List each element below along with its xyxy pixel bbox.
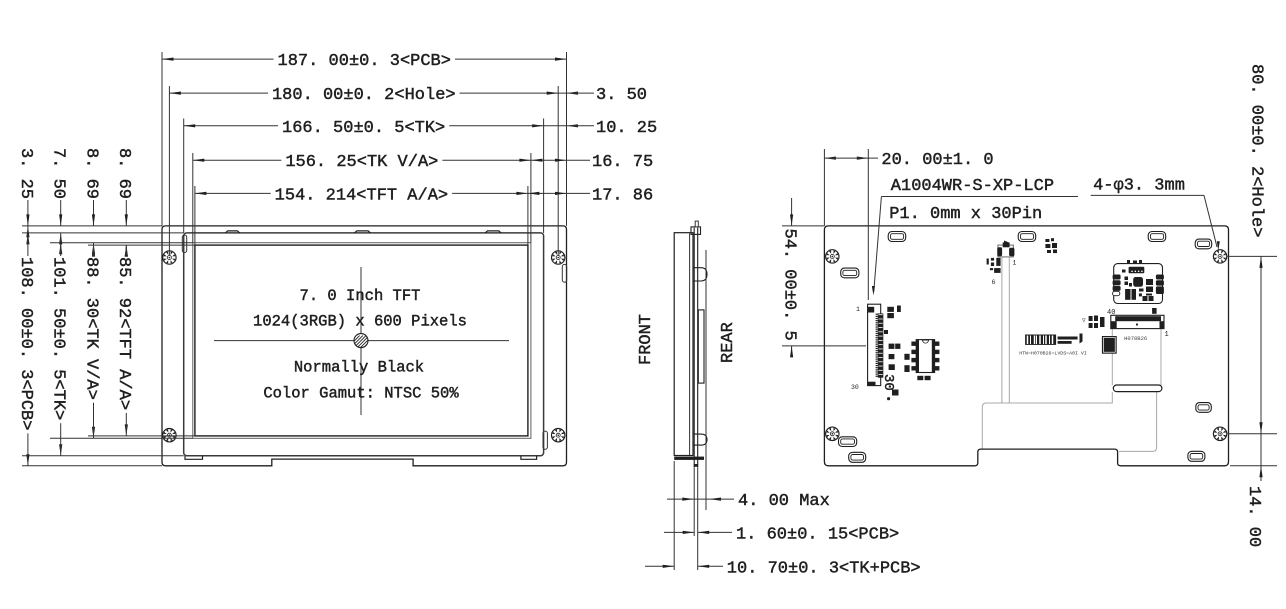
svg-text:1. 60±0. 15<PCB>: 1. 60±0. 15<PCB> xyxy=(736,525,899,544)
hidden backlight flex outline left xyxy=(982,392,1112,448)
svg-text:166. 50±0. 5<TK>: 166. 50±0. 5<TK> xyxy=(282,119,445,138)
svg-text:1: 1 xyxy=(1013,260,1017,267)
svg-text:17. 86: 17. 86 xyxy=(592,186,653,205)
dimension 4.00 Max xyxy=(667,492,830,511)
front view TK glass outline xyxy=(184,233,544,456)
hidden LCD flex vertical pair xyxy=(1002,258,1009,404)
svg-text:156. 25<TK V/A>: 156. 25<TK V/A> xyxy=(285,153,438,172)
side view clip lower xyxy=(693,434,707,445)
rear components left of 40pin xyxy=(1082,316,1105,329)
dimension 156.25 TK V/A width xyxy=(193,153,531,172)
svg-text:6: 6 xyxy=(992,279,996,286)
svg-text:10. 25: 10. 25 xyxy=(596,119,657,138)
dimension 10.25 right offset xyxy=(544,119,658,138)
side view top cap xyxy=(691,227,701,235)
svg-text:1: 1 xyxy=(856,306,860,313)
rear FPC connector bottom pad xyxy=(868,382,876,386)
rear FPC connector top pad xyxy=(868,307,875,313)
front view TK V/A rectangle xyxy=(193,243,531,439)
rear screw hole top-left xyxy=(826,250,839,263)
svg-text:3. 25: 3. 25 xyxy=(16,148,35,199)
svg-text:85. 92<TFT A/A>: 85. 92<TFT A/A> xyxy=(114,257,133,410)
svg-text:A1004WR-S-XP-LCP: A1004WR-S-XP-LCP xyxy=(891,177,1054,196)
side view glass inner line xyxy=(689,234,691,456)
svg-text:20. 00±1. 0: 20. 00±1. 0 xyxy=(881,151,993,170)
front view bottom edge tabs xyxy=(185,456,537,460)
side view TK glass slab xyxy=(674,233,693,456)
svg-text:REAR: REAR xyxy=(719,322,738,363)
dimension 108.00 PCB height xyxy=(16,226,35,466)
rear small part above 40pin right xyxy=(1152,308,1157,314)
side view top stub xyxy=(695,221,698,227)
svg-text:154. 214<TFT A/A>: 154. 214<TFT A/A> xyxy=(275,186,448,205)
rear view PCB outline xyxy=(824,226,1228,466)
svg-text:14. 00: 14. 00 xyxy=(1244,486,1263,547)
rear FPC connector outline xyxy=(868,304,881,385)
svg-text:8. 69: 8. 69 xyxy=(81,148,100,199)
front view top edge tabs xyxy=(225,231,501,233)
dimension 166.50 TK width xyxy=(184,119,544,138)
rear FPC stiffener slot xyxy=(1113,385,1162,392)
svg-text:108. 00±0. 3<PCB>: 108. 00±0. 3<PCB> xyxy=(16,257,35,430)
left extension lines top xyxy=(22,226,195,245)
svg-text:40: 40 xyxy=(1107,309,1115,317)
side view component envelope line xyxy=(705,250,707,510)
svg-text:1024(3RGB) x 600 Pixels: 1024(3RGB) x 600 Pixels xyxy=(253,313,467,331)
svg-text:101. 50±0. 5<TK>: 101. 50±0. 5<TK> xyxy=(49,257,68,420)
svg-text:88. 30<TK V/A>: 88. 30<TK V/A> xyxy=(81,257,100,400)
svg-text:10. 70±0. 3<TK+PCB>: 10. 70±0. 3<TK+PCB> xyxy=(727,559,921,578)
svg-text:H070B26: H070B26 xyxy=(1124,335,1147,342)
dimension 187.00 PCB width xyxy=(162,52,567,71)
svg-text:16. 75: 16. 75 xyxy=(592,153,653,172)
hidden backlight flex outline right xyxy=(1119,392,1157,451)
hidden 40pin flex verticals xyxy=(1112,329,1161,386)
svg-text:187. 00±0. 3<PCB>: 187. 00±0. 3<PCB> xyxy=(278,52,451,71)
svg-text:7. 0 Inch TFT: 7. 0 Inch TFT xyxy=(300,287,421,305)
rear components cluster top-right of LVDS xyxy=(1045,238,1057,253)
svg-text:1: 1 xyxy=(1165,331,1169,339)
dimension 8.69 top-left b xyxy=(114,148,133,257)
svg-text:FRONT: FRONT xyxy=(637,314,656,365)
rear screw hole bottom-right xyxy=(1213,427,1226,440)
svg-text:HTN=H070B26=LVDS=A0I VI: HTN=H070B26=LVDS=A0I VI xyxy=(1019,351,1087,357)
dimension 3.25 top-left xyxy=(16,148,35,244)
svg-text:4. 00 Max: 4. 00 Max xyxy=(738,492,830,511)
dimension 7.50 top-left xyxy=(49,148,68,254)
dimension 180.00 hole spacing xyxy=(169,86,558,105)
dimension 10.70 TK+PCB thickness xyxy=(645,559,921,578)
left extension lines bottom xyxy=(22,436,195,466)
dimension 20.00 connector offset xyxy=(824,149,993,300)
front display center mark xyxy=(214,267,509,415)
svg-text:30: 30 xyxy=(851,384,859,391)
side view bottom extension lines xyxy=(674,461,698,570)
dimension 54.00 vertical xyxy=(779,198,866,357)
rear IC U1 xyxy=(911,340,939,381)
side view PCB edge lines xyxy=(694,228,698,468)
dimension 16.75 right offset xyxy=(531,153,653,172)
side view bottom cap xyxy=(674,457,704,467)
rear top edge slots xyxy=(888,232,1165,242)
extension lines for top dimensions xyxy=(162,52,567,256)
dimension 14.00 vertical xyxy=(1230,434,1277,547)
rear bottom edge slots xyxy=(849,451,1205,462)
dimension 1.60 PCB thickness xyxy=(664,525,899,544)
dimension 154.214 TFT A/A width xyxy=(195,186,528,205)
dimension 3.50 right offset xyxy=(558,86,647,105)
svg-text:Color Gamut: NTSC 50%: Color Gamut: NTSC 50% xyxy=(263,385,459,403)
svg-text:180. 00±0. 2<Hole>: 180. 00±0. 2<Hole> xyxy=(272,86,456,105)
rear screw hole top-right xyxy=(1213,250,1226,263)
side view FPC bar xyxy=(698,310,704,383)
svg-text:4-φ3. 3mm: 4-φ3. 3mm xyxy=(1093,177,1185,196)
svg-text:7. 50: 7. 50 xyxy=(49,148,68,199)
rear backlight driver chip xyxy=(1102,336,1117,354)
side view clip upper xyxy=(693,268,707,281)
svg-text:80. 00±0. 2<Hole>: 80. 00±0. 2<Hole> xyxy=(1246,64,1265,237)
rear right edge slots xyxy=(1195,239,1212,412)
dimension 80.00 hole spacing vertical xyxy=(1228,64,1278,434)
dimension 101.50 TK height xyxy=(49,233,68,456)
svg-text:▽: ▽ xyxy=(1082,317,1086,324)
rear discrete components near FPC xyxy=(884,306,910,396)
dimension 88.30 TK V/A height xyxy=(81,243,100,439)
rear screw hole bottom-left xyxy=(826,427,839,440)
dimension 17.86 right offset xyxy=(528,186,653,205)
front screw hole top-left xyxy=(163,251,176,264)
dimension 85.92 TFT A/A height xyxy=(114,245,133,436)
label A1004WR-S-XP-LCP with leader xyxy=(872,177,1078,296)
front screw hole top-right xyxy=(552,251,565,264)
front view edge cutout marks xyxy=(182,235,566,449)
rear FPC connector pin comb xyxy=(876,313,884,377)
svg-text:8. 69: 8. 69 xyxy=(114,148,133,199)
svg-text:3. 50: 3. 50 xyxy=(596,86,647,105)
front view PCB outline xyxy=(162,226,567,466)
svg-text:54. 00±0. 5: 54. 00±0. 5 xyxy=(779,229,798,341)
rear components left of LVDS xyxy=(987,258,1001,273)
rear LVDS input connector xyxy=(997,241,1014,257)
svg-text:P1. 0mm x 30Pin: P1. 0mm x 30Pin xyxy=(889,205,1042,224)
svg-text:30: 30 xyxy=(880,374,896,391)
front screw hole bottom-right xyxy=(552,429,565,442)
rear marking text block xyxy=(1058,334,1083,344)
label 4-phi3.3mm with leader xyxy=(1091,177,1220,251)
rear left edge slots xyxy=(839,268,859,446)
rear barcode label xyxy=(1025,335,1056,345)
rear tiny parts above touch box xyxy=(1127,260,1142,263)
dimension 8.69 top-left a xyxy=(81,148,100,257)
rear touch controller box xyxy=(1113,264,1164,304)
front screw hole bottom-left xyxy=(163,429,176,442)
svg-text:Normally Black: Normally Black xyxy=(294,359,424,377)
front view TFT A/A rectangle xyxy=(195,245,528,436)
rear 40pin connector xyxy=(1111,315,1164,328)
